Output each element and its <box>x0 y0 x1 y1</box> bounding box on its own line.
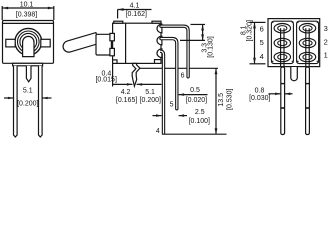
right view terminal 4 ellipse <box>274 52 290 61</box>
svg-text:5.1: 5.1 <box>145 89 155 96</box>
svg-text:1: 1 <box>324 51 328 60</box>
front view left side tab <box>6 39 15 47</box>
front view right side tab <box>41 39 50 47</box>
svg-text:4.2: 4.2 <box>121 89 131 96</box>
svg-text:4: 4 <box>156 128 160 135</box>
dimension 10.1 [0.398] top of front view <box>2 2 54 20</box>
right view terminal 3 ellipse <box>299 24 315 33</box>
break ticks on right view pins at middle pin end level <box>281 83 310 85</box>
svg-text:[0.200]: [0.200] <box>140 97 161 104</box>
svg-text:10.1: 10.1 <box>20 2 34 9</box>
svg-text:0.8: 0.8 <box>255 87 265 94</box>
svg-text:5: 5 <box>170 101 174 108</box>
dimension 4.2 [0.165] <box>116 89 137 104</box>
svg-text:4: 4 <box>260 52 264 61</box>
side view bent pin terminal 4 (bottom row) <box>160 51 164 134</box>
svg-text:2.5: 2.5 <box>195 109 205 116</box>
dimension 8.1 [0.320] vertical right view <box>241 20 266 64</box>
svg-text:0.5: 0.5 <box>190 87 200 94</box>
right view terminal 2 ellipse <box>299 38 315 47</box>
front view bushing circles <box>15 28 42 55</box>
svg-text:13.5: 13.5 <box>218 93 225 107</box>
front view middle pin (short) <box>26 66 31 82</box>
right view left slot <box>271 21 293 63</box>
side view bent pin terminal 6 (top row) <box>161 26 188 77</box>
right view terminal stems right column <box>306 28 309 66</box>
side view terminal lug bulge row 3 <box>157 49 162 58</box>
svg-text:2: 2 <box>324 38 328 47</box>
svg-text:[0.030]: [0.030] <box>249 95 270 102</box>
svg-text:[0.020]: [0.020] <box>186 97 207 104</box>
svg-text:[0.320]: [0.320] <box>247 20 254 41</box>
svg-text:5.1: 5.1 <box>23 88 33 95</box>
svg-text:[0.015]: [0.015] <box>95 77 116 84</box>
right view body <box>268 19 320 67</box>
front view right pin <box>39 66 43 137</box>
side view bushing <box>96 34 111 55</box>
svg-text:[0.130]: [0.130] <box>208 36 215 57</box>
side view front face tab lower <box>110 48 115 55</box>
side view front face tab upper <box>110 33 115 40</box>
right view terminal 5 ellipse <box>274 38 290 47</box>
svg-text:[0.100]: [0.100] <box>189 118 210 125</box>
side view terminal lug bulge row 1 <box>157 24 162 33</box>
svg-text:[0.398]: [0.398] <box>16 12 37 19</box>
right view terminal 6 ellipse <box>274 24 290 33</box>
front view left pin <box>14 66 18 137</box>
side view terminal lug bulge row 2 <box>157 36 162 45</box>
dimension 3.3 [0.130] vertical <box>180 24 215 57</box>
side view toggle lever (tilted stick) <box>63 33 99 53</box>
right view middle short pin <box>291 67 298 81</box>
front view toggle lever (dome) <box>23 36 34 56</box>
slot corner marks <box>272 21 319 62</box>
dimension 5.1 [0.200] side view <box>140 89 161 104</box>
svg-text:4.1: 4.1 <box>130 2 140 9</box>
right view left long pin <box>281 67 285 135</box>
right view right slot <box>297 21 319 63</box>
side view body <box>113 21 161 63</box>
dimension 4.1 [0.162] top of side view <box>118 2 152 18</box>
svg-text:6: 6 <box>260 24 264 33</box>
dimension 0.4 [0.015] lead thickness side view <box>95 63 161 86</box>
right view right long pin <box>306 67 310 135</box>
right view terminal 1 ellipse <box>299 52 315 61</box>
dimension 2.5 [0.100] pin spacing side view <box>153 109 211 125</box>
right view terminal stems left column <box>281 28 284 66</box>
dimension 0.5 [0.020] pin thickness side view <box>179 87 208 104</box>
svg-text:[0.200]: [0.200] <box>17 101 38 108</box>
svg-text:[0.162]: [0.162] <box>126 11 147 18</box>
dimension 5.1 [0.200] front view pin spacing <box>4 88 52 108</box>
svg-text:3: 3 <box>324 24 328 33</box>
side view kinked front lead (squiggle pin) <box>132 63 140 86</box>
svg-text:[0.165]: [0.165] <box>116 97 137 104</box>
svg-text:[0.530]: [0.530] <box>226 89 233 110</box>
dimension 13.5 [0.530] vertical <box>162 68 233 134</box>
front view body <box>3 21 54 64</box>
svg-text:5: 5 <box>260 38 264 47</box>
side view bent pin terminal 5 (middle row) <box>161 39 177 109</box>
svg-text:6: 6 <box>181 72 185 79</box>
13.5 top extension line <box>140 67 218 69</box>
dimension 0.8 [0.030] pin thickness right view <box>249 87 292 101</box>
front view base block <box>13 63 43 66</box>
